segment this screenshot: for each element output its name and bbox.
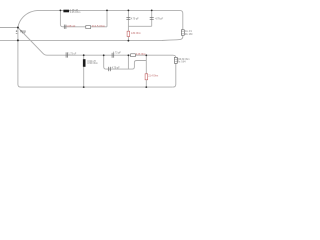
svg-text:1.68 uF: 1.68 uF (66, 24, 75, 28)
svg-text:Vpp: Vpp (20, 29, 26, 33)
svg-text:Rs: 260: Rs: 260 (185, 34, 193, 36)
svg-text:4.26 Ohm: 4.26 Ohm (136, 53, 146, 56)
svg-text:4.79 pF: 4.79 pF (112, 66, 120, 69)
svg-text:212.5 Ohm: 212.5 Ohm (92, 24, 106, 28)
svg-text:Cs: 4.9: Cs: 4.9 (185, 31, 193, 33)
svg-text:0.56 Ohm: 0.56 Ohm (87, 62, 97, 65)
svg-text:4.73 pF: 4.73 pF (113, 52, 121, 55)
svg-text:4.79 pF: 4.79 pF (155, 17, 163, 20)
svg-text:1.84 Ohm: 1.84 Ohm (131, 32, 141, 35)
svg-text:0.45 Ohm: 0.45 Ohm (70, 11, 80, 14)
svg-text:Rs: 9.84: Rs: 9.84 (177, 61, 186, 63)
svg-text:1.73 uF: 1.73 uF (68, 53, 76, 56)
svg-text:4.79 pF: 4.79 pF (131, 17, 139, 20)
svg-text:21.4 Ohm: 21.4 Ohm (148, 75, 158, 78)
